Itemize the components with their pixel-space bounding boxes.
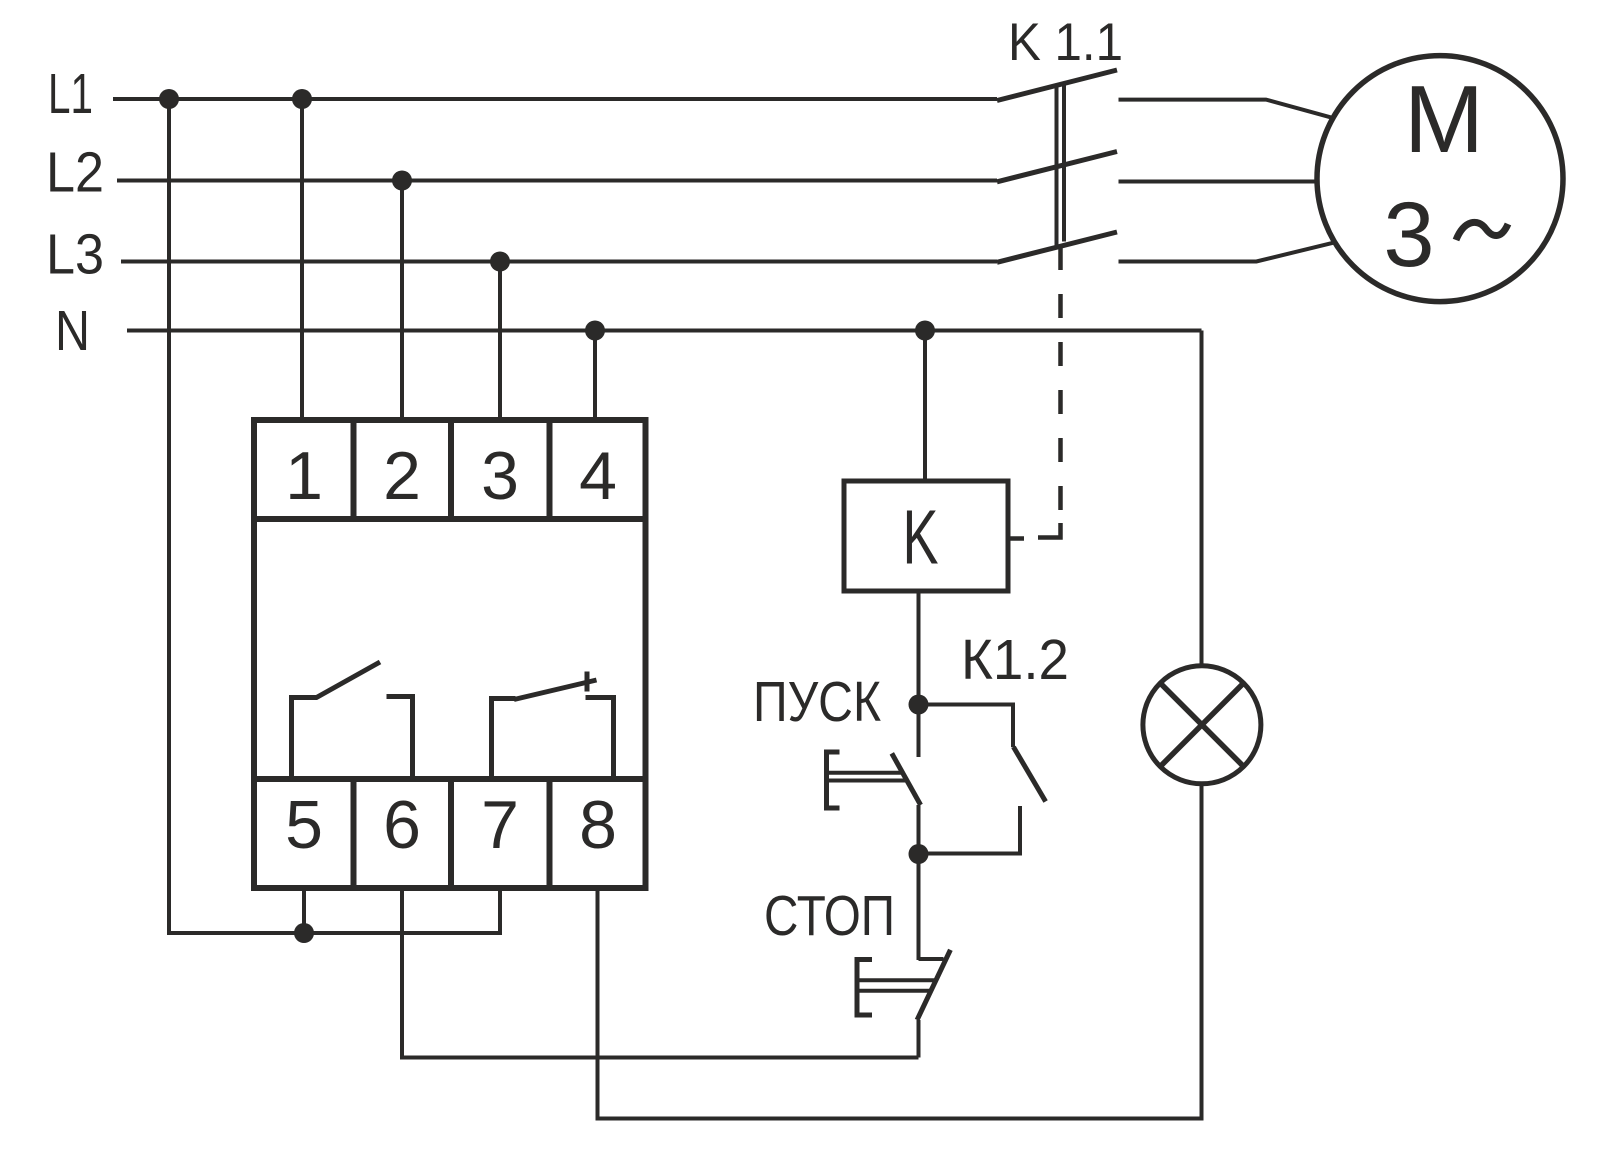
wire coil K to PUSK node (917, 591, 921, 705)
bottom rail wire to terminal 7 (304, 888, 500, 933)
svg-text:2: 2 (383, 438, 421, 514)
wire L1 (113, 97, 997, 101)
motor M circle (1317, 56, 1563, 302)
svg-text:M: M (1404, 66, 1484, 173)
lamp cross (1160, 683, 1243, 766)
node bottom junction (909, 844, 929, 864)
button PUSK actuator rods (827, 773, 907, 781)
svg-text:L3: L3 (46, 223, 104, 287)
wire L2 (117, 179, 997, 183)
svg-text:3: 3 (1383, 184, 1434, 286)
terminal row separator bottom (254, 776, 646, 782)
motor lead phase 3 (1119, 243, 1334, 262)
wire N (127, 329, 1202, 333)
wire terminal 5 to bottom rail (302, 888, 306, 933)
junction on L3 (490, 252, 510, 272)
svg-text:К1.2: К1.2 (961, 628, 1069, 692)
svg-text:СТОП: СТОП (764, 884, 895, 948)
contact K1.2 top branch (919, 705, 1014, 748)
contact K1.2 bottom branch (919, 806, 1021, 854)
button STOP top lead (917, 854, 921, 960)
svg-text:6: 6 (383, 787, 421, 863)
contactor K1.1 blade phase L2 (997, 152, 1117, 182)
wire from L1 down left side to bottom rail (169, 99, 306, 933)
svg-text:L1: L1 (48, 62, 93, 126)
terminal dividers bottom row (354, 779, 550, 888)
wire N to terminal 4 (593, 331, 597, 421)
junction on N at x925 (915, 321, 935, 341)
button PUSK bottom lead (917, 805, 921, 854)
wire terminal 8 to lamp bottom (598, 784, 1202, 1119)
svg-text:K 1.1: K 1.1 (1008, 13, 1123, 72)
wire N junction to coil K (923, 331, 927, 482)
terminal dividers top row (354, 420, 550, 519)
svg-text:7: 7 (481, 787, 519, 863)
relay contact 5-6 (292, 662, 413, 779)
button STOP actuator bracket (857, 960, 872, 1016)
wire N corner to lamp top (1200, 331, 1204, 667)
wire terminal 6 to STOP bottom (402, 888, 919, 1058)
button STOP blade (917, 950, 950, 1020)
contactor K1.1 mechanical bars (1057, 83, 1065, 247)
motor lead phase 1 (1119, 100, 1332, 118)
svg-text:5: 5 (285, 787, 323, 863)
wire L3 (121, 260, 997, 264)
button PUSK blade (892, 753, 921, 805)
junction on L2 (392, 171, 412, 191)
coil K box (844, 481, 1008, 591)
svg-text:8: 8 (579, 787, 617, 863)
motor label tilde (1456, 222, 1508, 240)
contactor K1.1 blade phase L3 (997, 232, 1117, 262)
wire L2 to terminal 2 (400, 181, 404, 421)
junction bottom-left rail (294, 923, 314, 943)
terminal row separator top (254, 516, 646, 522)
button PUSK actuator bracket (827, 752, 840, 808)
relay module body (254, 420, 646, 888)
wire L3 to terminal 3 (498, 262, 502, 421)
node PUSK junction (909, 695, 929, 715)
lamp circle (1143, 666, 1261, 784)
contact K1.2 blade (1014, 747, 1046, 802)
mechanical link dashed to coil K (1008, 246, 1061, 539)
button STOP fixed contact tick (919, 957, 944, 961)
svg-text:4: 4 (579, 438, 617, 514)
relay contact 7-8 (492, 672, 614, 780)
wire L1 to terminal 1 (300, 99, 304, 420)
button STOP bottom lead (917, 1020, 921, 1058)
svg-text:N: N (55, 299, 90, 363)
junction on L1 at x302 (292, 89, 312, 109)
svg-text:L2: L2 (46, 141, 104, 205)
motor lead phase 2 (1119, 180, 1318, 184)
button STOP actuator rods (858, 980, 937, 990)
junction on N at x595 (585, 321, 605, 341)
junction on L1 at x169 (159, 89, 179, 109)
svg-text:1: 1 (285, 438, 323, 514)
svg-text:ПУСК: ПУСК (753, 670, 881, 734)
svg-text:3: 3 (481, 438, 519, 514)
contactor K1.1 blade phase L1 (997, 70, 1117, 101)
svg-text:K: K (903, 495, 939, 581)
button PUSK top lead (917, 705, 921, 758)
